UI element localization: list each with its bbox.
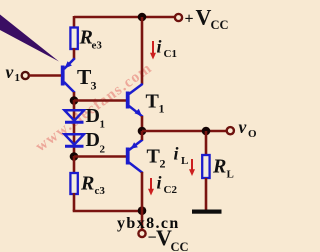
wire T1 emitter to output node <box>141 116 144 131</box>
wire to -Vcc terminal <box>141 211 144 230</box>
terminal +Vcc <box>175 14 182 21</box>
svg-text:+: + <box>185 11 194 28</box>
label +Vcc <box>185 5 229 32</box>
svg-text:T: T <box>147 146 161 168</box>
svg-text:v: v <box>6 62 14 82</box>
svg-text:CC: CC <box>211 18 229 32</box>
resistor Re3 <box>70 28 77 50</box>
wire diode chain <box>73 100 76 157</box>
svg-text:e3: e3 <box>92 40 103 52</box>
wire T3 collector down to node A <box>73 92 76 101</box>
svg-text:i: i <box>157 37 162 57</box>
svg-text:D: D <box>86 129 100 151</box>
wire output to terminal <box>142 130 227 133</box>
svg-text:1: 1 <box>159 102 165 116</box>
svg-text:L: L <box>227 169 234 181</box>
label iC1 <box>157 37 177 61</box>
svg-text:i: i <box>174 144 179 164</box>
label RL <box>212 156 234 181</box>
wire Rc3 to bottom rail <box>73 193 76 211</box>
label vO <box>239 117 258 140</box>
node junction top (142,17) <box>138 13 147 22</box>
svg-text:R: R <box>212 156 226 178</box>
svg-text:v: v <box>239 117 247 137</box>
svg-text:ybx8.cn: ybx8.cn <box>117 215 180 232</box>
label iL <box>174 144 189 168</box>
label T1 <box>146 91 165 116</box>
svg-text:C1: C1 <box>164 48 177 60</box>
svg-text:i: i <box>157 173 162 193</box>
transistor T1 (NPN) <box>128 84 143 117</box>
wire RL branch <box>205 131 208 156</box>
ground <box>192 210 222 214</box>
resistor RL <box>202 155 209 178</box>
transistor T3 (PNP) <box>63 58 75 92</box>
wire Vcc drop from rail to Re3 <box>73 16 76 28</box>
node bottom junction <box>138 206 147 215</box>
label D2 <box>86 129 106 156</box>
current iC2 arrow <box>148 178 154 196</box>
label D1 <box>86 105 106 131</box>
label Re3 <box>79 27 103 52</box>
svg-text:1: 1 <box>100 119 106 131</box>
wire RL to ground <box>205 178 208 210</box>
wire top rail <box>74 16 175 19</box>
current iC1 arrow <box>150 41 156 60</box>
wire v1 to T3 base <box>29 74 61 77</box>
node B <box>70 152 79 161</box>
diode D1 <box>65 110 85 122</box>
svg-text:V: V <box>196 5 212 30</box>
svg-text:3: 3 <box>91 79 97 93</box>
wire Re3 to T3 emitter <box>73 48 76 59</box>
label v1 <box>6 62 21 84</box>
wire node B to T2 base <box>74 155 126 158</box>
label T2 <box>147 146 166 171</box>
wire node B to Rc3 <box>73 156 76 174</box>
wire bottom rail <box>73 210 142 213</box>
node output <box>138 127 147 136</box>
svg-text:2: 2 <box>160 157 166 171</box>
diode D2 <box>65 134 85 146</box>
svg-text:1: 1 <box>15 72 21 84</box>
svg-text:T: T <box>146 91 160 113</box>
node RL junction <box>202 127 211 136</box>
current iL arrow <box>189 159 195 176</box>
label -Vcc <box>148 225 189 252</box>
wire T2 collector down to bottom rail <box>141 172 144 211</box>
svg-text:O: O <box>248 128 257 140</box>
label T3 <box>77 65 97 93</box>
svg-text:D: D <box>86 105 100 127</box>
wire T1 collector to top rail <box>141 17 144 84</box>
svg-text:2: 2 <box>100 144 106 156</box>
purple pointer wedge <box>0 15 59 62</box>
label Rc3 <box>80 173 105 198</box>
wire T2 emitter up to output node <box>141 131 144 140</box>
svg-text:R: R <box>80 173 94 195</box>
terminal v1 <box>22 72 29 79</box>
transistor T2 (PNP) <box>128 140 143 174</box>
node A <box>70 96 79 105</box>
svg-text:C2: C2 <box>164 184 178 196</box>
label iC2 <box>157 173 178 197</box>
terminal -Vcc <box>138 230 145 237</box>
svg-text:c3: c3 <box>95 185 106 197</box>
wire node A to T1 base <box>74 99 126 102</box>
svg-text:L: L <box>181 155 188 167</box>
resistor Rc3 <box>70 173 77 194</box>
terminal vO <box>227 127 234 134</box>
svg-text:CC: CC <box>171 240 189 252</box>
